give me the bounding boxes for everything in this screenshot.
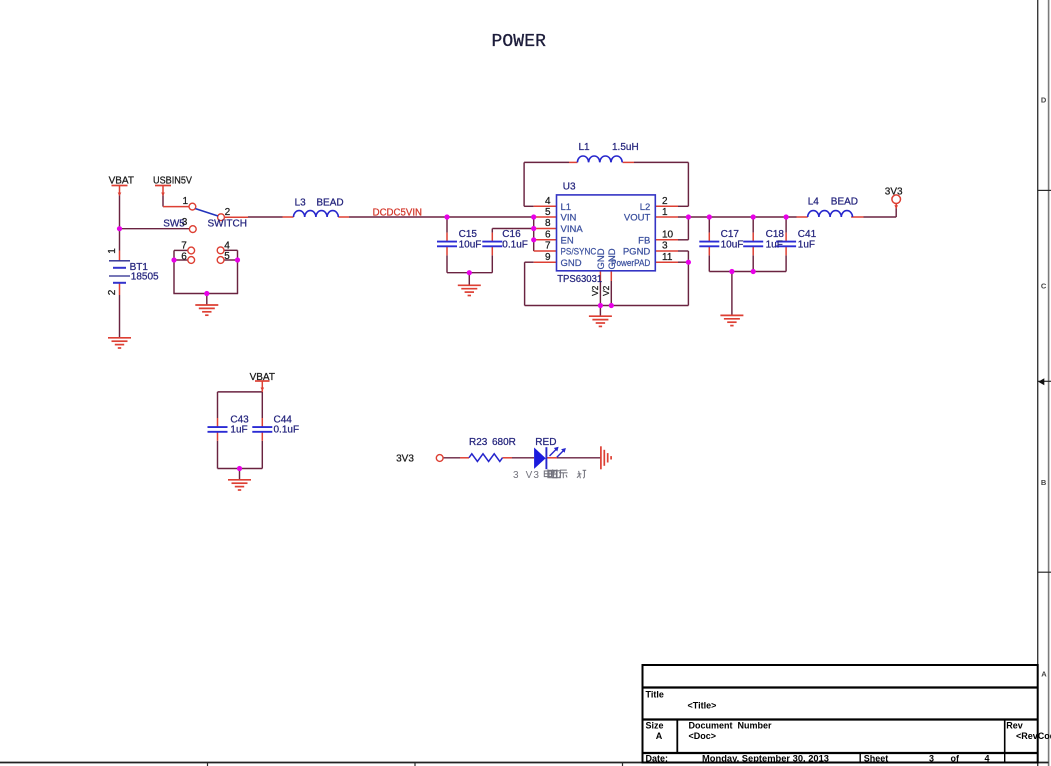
svg-text:Date:: Date: <box>646 754 669 764</box>
svg-text:6: 6 <box>545 230 551 241</box>
svg-text:V: V <box>526 470 533 481</box>
svg-text:2: 2 <box>107 289 118 295</box>
svg-text:18505: 18505 <box>131 271 159 282</box>
svg-text:BEAD: BEAD <box>831 197 858 208</box>
svg-text:4: 4 <box>985 754 990 764</box>
svg-text:Monday, September 30, 2013: Monday, September 30, 2013 <box>702 754 829 764</box>
svg-text:3: 3 <box>533 470 539 481</box>
svg-text:3V3: 3V3 <box>396 454 414 465</box>
svg-text:0.1uF: 0.1uF <box>274 425 300 436</box>
svg-text:8: 8 <box>545 218 551 229</box>
svg-text:9: 9 <box>545 252 551 263</box>
svg-text:C16: C16 <box>502 229 521 240</box>
svg-text:680R: 680R <box>492 437 516 448</box>
svg-text:PGND: PGND <box>623 247 651 258</box>
svg-text:C41: C41 <box>798 229 817 240</box>
svg-text:<Doc>: <Doc> <box>689 731 717 741</box>
svg-text:L2: L2 <box>640 202 651 213</box>
svg-text:D: D <box>1041 95 1047 104</box>
svg-text:7: 7 <box>545 241 551 252</box>
svg-text:C15: C15 <box>459 229 478 240</box>
svg-text:10uF: 10uF <box>459 240 482 251</box>
svg-text:BEAD: BEAD <box>316 198 343 209</box>
svg-text:L1: L1 <box>561 202 572 213</box>
svg-text:A: A <box>1041 670 1047 679</box>
svg-text:RED: RED <box>535 437 556 448</box>
svg-text:V2: V2 <box>590 285 600 296</box>
svg-text:B: B <box>1041 478 1047 487</box>
svg-text:1: 1 <box>107 248 118 254</box>
svg-text:10: 10 <box>662 230 674 241</box>
svg-text:4: 4 <box>224 240 230 251</box>
svg-text:EN: EN <box>561 235 574 246</box>
svg-text:C: C <box>1041 282 1047 291</box>
svg-text:of: of <box>951 754 960 764</box>
svg-text:Title: Title <box>646 689 664 699</box>
svg-text:L1: L1 <box>579 142 591 153</box>
svg-text:1.5uH: 1.5uH <box>612 142 639 153</box>
svg-text:5: 5 <box>545 207 551 218</box>
svg-text:VBAT: VBAT <box>109 175 134 186</box>
svg-text:1uF: 1uF <box>230 425 247 436</box>
svg-text:3: 3 <box>513 470 519 481</box>
svg-text:TPS63031: TPS63031 <box>557 274 602 285</box>
svg-text:USBIN5V: USBIN5V <box>153 175 192 186</box>
svg-text:C43: C43 <box>230 414 249 425</box>
svg-text:C44: C44 <box>274 414 293 425</box>
svg-text:GND: GND <box>607 248 618 269</box>
svg-text:1uF: 1uF <box>766 240 783 251</box>
svg-text:6: 6 <box>181 251 187 262</box>
svg-text:VIN: VIN <box>561 213 577 224</box>
svg-text:4: 4 <box>545 196 551 207</box>
svg-text:R23: R23 <box>469 437 488 448</box>
svg-text:1: 1 <box>662 207 668 218</box>
svg-text:Sheet: Sheet <box>864 754 889 764</box>
svg-text:5: 5 <box>224 251 230 262</box>
svg-text:GND: GND <box>561 258 582 269</box>
svg-text:PS/SYNC: PS/SYNC <box>561 247 597 258</box>
svg-text:3: 3 <box>929 754 934 764</box>
svg-text:Size: Size <box>646 721 664 731</box>
svg-text:3: 3 <box>182 217 188 228</box>
svg-text:C18: C18 <box>766 229 785 240</box>
svg-text:7: 7 <box>181 241 187 252</box>
svg-text:Document Number: Document Number <box>689 721 773 731</box>
svg-text:1uF: 1uF <box>798 240 815 251</box>
svg-text:C17: C17 <box>721 229 740 240</box>
svg-text:SWITCH: SWITCH <box>208 218 247 229</box>
svg-text:3V3: 3V3 <box>885 186 903 197</box>
svg-text:DCDC5VIN: DCDC5VIN <box>373 207 422 218</box>
svg-text:<RevCode>: <RevCode> <box>1016 731 1051 741</box>
svg-text:V2: V2 <box>601 285 611 296</box>
svg-text:3: 3 <box>662 241 668 252</box>
svg-text:Rev: Rev <box>1006 721 1023 731</box>
svg-text:<Title>: <Title> <box>688 701 717 711</box>
svg-text:FB: FB <box>638 235 650 246</box>
svg-text:L3: L3 <box>295 198 307 209</box>
svg-text:11: 11 <box>662 252 673 263</box>
svg-text:L4: L4 <box>808 197 820 208</box>
svg-text:2: 2 <box>662 196 668 207</box>
svg-text:VBAT: VBAT <box>250 372 275 383</box>
svg-text:VOUT: VOUT <box>624 213 651 224</box>
svg-text:VINA: VINA <box>561 224 584 235</box>
svg-text:1: 1 <box>182 196 188 207</box>
svg-text:POWER: POWER <box>492 32 547 52</box>
svg-text:2: 2 <box>225 207 231 218</box>
svg-text:A: A <box>656 731 663 741</box>
svg-text:0.1uF: 0.1uF <box>502 240 528 251</box>
svg-text:GND: GND <box>596 248 607 269</box>
svg-text:U3: U3 <box>563 182 576 193</box>
svg-text:10uF: 10uF <box>721 240 744 251</box>
